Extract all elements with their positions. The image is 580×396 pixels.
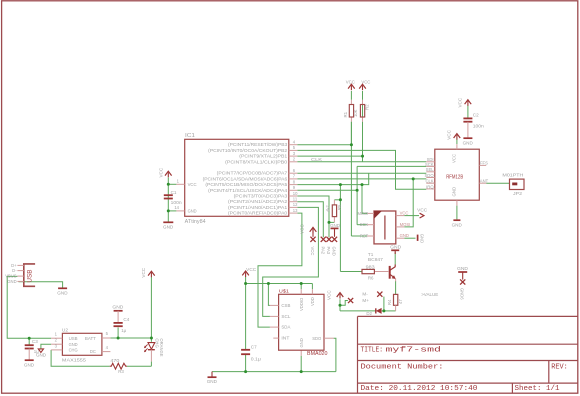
- IC1 pin 13 PA0: [289, 212, 298, 214]
- svg-text:VCC: VCC: [447, 129, 452, 139]
- svg-text:11: 11: [293, 197, 298, 202]
- svg-text:VCC: VCC: [310, 247, 315, 256]
- svg-text:VCC: VCC: [159, 167, 164, 177]
- svg-text:(PCINT7/ICP/OC0B/ADC7)PA7: (PCINT7/ICP/OC0B/ADC7)PA7: [217, 171, 288, 176]
- LED CHG orange: [148, 343, 155, 350]
- svg-text:2: 2: [293, 157, 296, 162]
- USB pin VBUS: [17, 275, 23, 277]
- RFM12B VCC pin top: [456, 144, 458, 149]
- title block lines: [357, 316, 359, 393]
- IC IC1 ATtiny84 body: [185, 139, 289, 216]
- svg-text:C4: C4: [123, 317, 129, 322]
- ground right of header: [417, 235, 419, 241]
- svg-text:BATT: BATT: [85, 336, 96, 341]
- svg-text:MAX1555: MAX1555: [62, 358, 86, 364]
- svg-text:SCK: SCK: [425, 162, 434, 167]
- header pin SCK: [367, 224, 374, 226]
- connector SV1 ISP header body: [374, 211, 396, 244]
- svg-text:RFM12B: RFM12B: [446, 175, 463, 181]
- svg-text:VCC: VCC: [188, 182, 197, 187]
- svg-text:GND: GND: [57, 291, 68, 296]
- svg-text:INT: INT: [281, 336, 289, 341]
- svg-text:GND: GND: [163, 225, 174, 230]
- svg-text:(PCINT5/OC1B/MISO/DO/ADC5)PA5: (PCINT5/OC1B/MISO/DO/ADC5)PA5: [205, 182, 287, 187]
- wire pin10 to PA3 pin: [297, 196, 329, 237]
- svg-text:SCK: SCK: [360, 222, 369, 227]
- ground below RFM12B: [453, 219, 460, 221]
- IC1 pin 11 PA2: [289, 201, 298, 203]
- svg-text:R6: R6: [368, 275, 374, 280]
- wire CHG net U2 pin3 to R3 to LED: [51, 350, 110, 366]
- svg-text:Date: 20.11.2012 10:57:40: Date: 20.11.2012 10:57:40: [361, 385, 478, 393]
- svg-text:PA3: PA3: [326, 247, 331, 255]
- svg-text:4k7: 4k7: [326, 205, 331, 212]
- capacitor C7 0.1u: [241, 349, 250, 351]
- svg-text:4: 4: [106, 345, 109, 350]
- U2 pin 2 GND: [51, 343, 62, 345]
- wire USB GND to ground: [19, 282, 63, 288]
- svg-text:C1: C1: [171, 190, 177, 195]
- header pin RST: [367, 235, 374, 237]
- connector X1 USB: [24, 264, 35, 286]
- svg-text:ORANGE: ORANGE: [159, 338, 164, 356]
- svg-text:GND: GND: [69, 342, 78, 347]
- svg-text:R4: R4: [387, 299, 392, 305]
- capacitor C3 1u: [25, 344, 34, 346]
- svg-text:100n: 100n: [473, 124, 485, 129]
- RFM12B pin SCK: [426, 165, 435, 167]
- svg-text:VCC: VCC: [458, 97, 463, 107]
- svg-text:Sheet: 1/1: Sheet: 1/1: [515, 385, 560, 393]
- RFM12B pin SDI: [426, 161, 435, 163]
- svg-text:VCC: VCC: [400, 211, 409, 216]
- supply VCC at battery net: [148, 271, 155, 275]
- IC1 pin 14 GND: [176, 210, 184, 212]
- svg-text:SEL: SEL: [426, 167, 435, 172]
- svg-text:VDDIO: VDDIO: [299, 297, 304, 311]
- svg-text:GND: GND: [463, 141, 474, 146]
- wire pin7 to RFM SDO and header MOSI: [297, 178, 426, 180]
- svg-text:ANT: ANT: [480, 178, 489, 183]
- ground left of GND rail: [211, 372, 213, 377]
- svg-text:GND: GND: [390, 244, 402, 249]
- wire BATT net U2 pin5 to VCC riser: [110, 337, 151, 339]
- svg-text:TITLE:: TITLE:: [361, 347, 384, 355]
- IC1 pin 8 PA5: [289, 184, 298, 186]
- svg-text:Document Number:: Document Number:: [361, 364, 444, 372]
- svg-text:GND: GND: [207, 379, 218, 384]
- wire pin13 to BMA020 SDA: [258, 213, 302, 327]
- wire C2 branch: [467, 105, 469, 117]
- wire GND rail bottom: [212, 371, 336, 373]
- svg-text:GND6: GND6: [460, 288, 465, 300]
- wire pin12 to BMA020 SCL: [263, 207, 319, 316]
- ground below C3: [25, 359, 34, 361]
- supply VCC at C1: [165, 171, 172, 175]
- svg-text:(PCINT6/OC1A/SDA/MOSI/ADC6)PA6: (PCINT6/OC1A/SDA/MOSI/ADC6)PA6: [203, 176, 288, 181]
- svg-text:GND: GND: [299, 338, 304, 347]
- wire VCC arrow to C7 to GND rail: [245, 277, 247, 350]
- svg-text:D-: D-: [12, 268, 17, 273]
- IC1 pin 6 PA7: [289, 172, 298, 174]
- resistor R5 4k7: [333, 200, 335, 205]
- svg-text:GND: GND: [400, 233, 409, 238]
- motor pin M+ with cross: [348, 298, 353, 303]
- svg-text:(PCINT8/XTAL1/CLKI)PB0: (PCINT8/XTAL1/CLKI)PB0: [225, 159, 288, 164]
- wire VCC rail to BMA020: [246, 283, 313, 285]
- svg-text:(PCINT3/T0/ADC3)PA3: (PCINT3/T0/ADC3)PA3: [234, 194, 288, 199]
- svg-text:CLK: CLK: [311, 157, 323, 162]
- svg-text:DC: DC: [90, 349, 96, 354]
- svg-text:VCC: VCC: [417, 208, 428, 213]
- IC U$1 BMA020 body: [279, 294, 324, 350]
- svg-text:13: 13: [293, 208, 298, 213]
- svg-text:GND: GND: [36, 352, 46, 357]
- svg-text:(PCINT4/T1/SCL/USCK/ADC4)PA4: (PCINT4/T1/SCL/USCK/ADC4)PA4: [208, 188, 288, 193]
- U2 pin 3 CHG: [51, 349, 62, 351]
- svg-text:GND: GND: [420, 234, 425, 243]
- svg-text:GND: GND: [24, 362, 35, 367]
- wire RESET net pin4-R1-RST: [297, 144, 351, 146]
- wire R1 bottom: [350, 122, 352, 145]
- wire header GND right: [404, 237, 415, 239]
- pin PA2 with cross: [321, 237, 326, 242]
- wire SCK net pin9 header RFM: [297, 189, 357, 191]
- svg-text:VBUS: VBUS: [5, 274, 17, 279]
- svg-text:CSB: CSB: [281, 303, 290, 308]
- BMA020 pin VDD: [311, 289, 313, 294]
- header pin VCC: [396, 215, 405, 217]
- pin PA3 with cross: [326, 237, 331, 242]
- U2 pin 5 BATT: [102, 337, 111, 339]
- svg-text:GND: GND: [457, 266, 469, 271]
- svg-text:IRQ: IRQ: [426, 184, 434, 189]
- IC1 pin 12 PA1: [289, 206, 298, 208]
- USB pin D-: [17, 270, 23, 272]
- svg-text:myf7-smd: myf7-smd: [386, 347, 442, 355]
- svg-text:9: 9: [293, 185, 296, 190]
- svg-text:C3: C3: [32, 339, 38, 344]
- svg-text:REV:: REV:: [551, 364, 568, 372]
- svg-text:SDA: SDA: [281, 325, 290, 330]
- wire T1 collector to GND: [394, 252, 396, 264]
- supply VCC at RFM12B: [454, 134, 461, 138]
- wire U2 pin2 to gnd triangle: [41, 344, 51, 349]
- svg-text:FFS: FFS: [480, 161, 488, 166]
- header pin MOSI: [396, 226, 405, 228]
- svg-text:VCC: VCC: [346, 79, 355, 84]
- svg-text:PA2: PA2: [320, 247, 325, 255]
- svg-text:USB: USB: [69, 336, 78, 341]
- RFM12B pin ANT: [479, 182, 486, 184]
- wire header VCC arrow: [404, 215, 419, 217]
- svg-text:MOSI: MOSI: [400, 222, 411, 227]
- svg-text:SDO: SDO: [425, 173, 435, 178]
- svg-text:4: 4: [293, 140, 296, 145]
- svg-text:GND: GND: [330, 223, 340, 228]
- svg-text:VCC: VCC: [452, 154, 457, 163]
- svg-text:R5: R5: [337, 204, 342, 210]
- RFM12B pin SDO: [426, 177, 435, 179]
- BMA020 pin INT: [273, 337, 278, 339]
- svg-text:1μ: 1μ: [121, 328, 126, 333]
- svg-text:M+: M+: [362, 298, 369, 303]
- RFM12B pin SEL: [426, 171, 435, 173]
- svg-text:VDD: VDD: [310, 297, 315, 306]
- svg-text:3: 3: [293, 151, 296, 156]
- USB pin GND: [17, 280, 23, 282]
- wire CLK net pin2 to RFM SDI: [297, 161, 426, 163]
- svg-text:>VALUE: >VALUE: [421, 292, 438, 297]
- ground below C2: [463, 137, 472, 139]
- header pin MISO: [367, 212, 374, 214]
- BMA020 pin SCL: [270, 315, 279, 317]
- svg-text:CHG: CHG: [69, 348, 79, 353]
- svg-text:C2: C2: [473, 112, 479, 117]
- svg-text:C7: C7: [251, 344, 257, 349]
- svg-text:(PCINT10/INT0/OC0A/CKOUT)PB2: (PCINT10/INT0/OC0A/CKOUT)PB2: [208, 148, 288, 153]
- IC1 pin 1 VCC: [176, 183, 184, 185]
- resistor R1 10K: [350, 100, 352, 105]
- svg-text:IC1: IC1: [185, 133, 195, 139]
- svg-text:R2: R2: [364, 104, 369, 110]
- svg-text:7: 7: [293, 174, 296, 179]
- svg-text:GND: GND: [112, 304, 124, 309]
- wire pin6 to RFM SEL: [297, 172, 426, 174]
- svg-text:GND: GND: [452, 187, 457, 197]
- svg-text:RST: RST: [360, 234, 369, 239]
- wire RFM VCC pin: [456, 139, 458, 144]
- svg-text:R3: R3: [118, 369, 124, 374]
- svg-text:GND: GND: [332, 247, 337, 256]
- svg-text:(PCINT11/RESET/DW)PB3: (PCINT11/RESET/DW)PB3: [228, 142, 288, 147]
- module U3 RFM12B body: [435, 149, 480, 200]
- wire RFM GND pin: [456, 206, 458, 220]
- svg-text:0.1μ: 0.1μ: [251, 356, 262, 361]
- U2 pin 4 DC: [102, 351, 111, 353]
- svg-text:1: 1: [177, 178, 180, 183]
- svg-text:ATtiny84: ATtiny84: [185, 219, 206, 225]
- IC1 pin 3 PB1: [289, 155, 298, 157]
- svg-text:GND: GND: [188, 209, 197, 214]
- junction dots: [167, 183, 170, 186]
- svg-text:JP2: JP2: [513, 191, 522, 196]
- IC1 pin 9 PA4: [289, 189, 298, 191]
- IC U2 MAX1555 body: [62, 333, 102, 355]
- supply VCC at C2: [465, 100, 472, 104]
- BMA020 pin VDDIO: [300, 289, 302, 294]
- motor pin M- with cross: [377, 292, 382, 297]
- IC1 pin 10 PA3: [289, 195, 298, 197]
- svg-text:470: 470: [110, 358, 120, 363]
- svg-text:D2: D2: [366, 311, 372, 316]
- svg-text:100n: 100n: [171, 200, 183, 205]
- svg-text:5: 5: [293, 145, 296, 150]
- svg-text:VCC: VCC: [246, 267, 256, 272]
- wire C3 riser: [28, 338, 30, 344]
- ground right of USB: [58, 287, 67, 289]
- RFM12B GND pin bottom: [456, 200, 458, 205]
- header pin GND: [396, 237, 405, 239]
- svg-text:USB: USB: [27, 269, 34, 282]
- U2 pin 1 USB: [51, 337, 62, 339]
- RFM12B pin IRQ: [426, 188, 435, 190]
- diode D2: [375, 308, 377, 313]
- svg-text:SDO: SDO: [312, 336, 322, 341]
- wire R1 R2 tops: [350, 91, 352, 100]
- svg-text:10: 10: [293, 191, 298, 196]
- wire C4 riser: [117, 327, 119, 338]
- svg-text:VCC: VCC: [141, 267, 146, 277]
- svg-text:14: 14: [174, 205, 179, 210]
- svg-text:MISO: MISO: [357, 211, 368, 216]
- BMA020 pin SDO: [324, 337, 334, 339]
- svg-text:CLK: CLK: [425, 179, 433, 184]
- svg-text:CHG: CHG: [155, 338, 160, 347]
- wire VCC to C1 and IC1 power pins: [167, 177, 169, 221]
- svg-text:6: 6: [293, 168, 296, 173]
- IC1 pin 5 PB2: [289, 149, 298, 151]
- svg-text:GND: GND: [7, 279, 16, 284]
- wire R5 jogs: [334, 199, 340, 201]
- svg-text:M01PTH: M01PTH: [502, 172, 523, 177]
- svg-text:5: 5: [106, 331, 109, 336]
- svg-text:12: 12: [293, 202, 298, 207]
- svg-text:VCC: VCC: [327, 290, 332, 300]
- ground below C1: [163, 221, 173, 223]
- wire pin8 trunk to R6 column and header MISO: [297, 184, 362, 186]
- svg-text:BC847: BC847: [368, 257, 384, 262]
- wire T1 emitter to R4: [395, 281, 397, 294]
- USB pin D+: [17, 264, 23, 266]
- ground triangle at U2 pin2: [38, 349, 43, 353]
- BMA020 pin SDA: [270, 326, 279, 328]
- svg-text:10K: 10K: [353, 109, 358, 117]
- resistor R2: [362, 100, 364, 105]
- RFM12B pin FFS: [479, 164, 486, 166]
- svg-text:GND: GND: [452, 223, 463, 228]
- wire motor VCC to M+ and D2: [339, 299, 341, 311]
- resistor R4 47: [394, 294, 398, 305]
- svg-text:(PCINT0/AREF/ADC0)PA0: (PCINT0/AREF/ADC0)PA0: [228, 211, 288, 216]
- svg-text:(PCINT2/AIN1/ADC2)PA2: (PCINT2/AIN1/ADC2)PA2: [228, 199, 288, 204]
- svg-text:BMA020: BMA020: [307, 351, 328, 357]
- svg-text:(PCINT9/XTAL2)PB1: (PCINT9/XTAL2)PB1: [239, 154, 288, 159]
- wire pin5 to RFM IRQ: [297, 150, 426, 189]
- svg-text:47: 47: [398, 299, 403, 304]
- BMA020 pin CSB: [270, 304, 279, 306]
- RFM12B pin CLK: [426, 182, 435, 184]
- wire pin11 to PA2 pin: [297, 202, 323, 238]
- IC1 pin 2 PB0: [289, 161, 298, 163]
- wire VBUS from USB to U2 pin1: [7, 276, 51, 338]
- svg-text:SCL: SCL: [281, 314, 291, 319]
- svg-text:VCC: VCC: [300, 224, 305, 234]
- capacitor C1: [164, 194, 173, 196]
- svg-text:8: 8: [293, 179, 296, 184]
- svg-text:1: 1: [55, 332, 58, 337]
- svg-text:R1: R1: [343, 111, 348, 117]
- svg-text:U2: U2: [62, 327, 68, 333]
- wire pin3 to R2 column: [297, 155, 362, 157]
- svg-text:(PCINT1/AIN0/ADC1)PA1: (PCINT1/AIN0/ADC1)PA1: [228, 205, 288, 210]
- IC1 pin 7 PA6: [289, 178, 298, 180]
- svg-text:U$1: U$1: [279, 288, 289, 294]
- IC1 pin 4 PB3: [289, 144, 298, 146]
- wire RFM ANT to JP2: [486, 182, 509, 184]
- capacitor C2 100n: [463, 117, 472, 119]
- svg-text:M-: M-: [362, 292, 368, 297]
